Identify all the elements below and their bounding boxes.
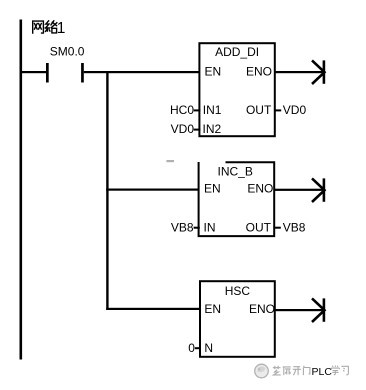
svg-text:N: N — [204, 341, 213, 355]
svg-text:INC_B: INC_B — [218, 165, 253, 179]
svg-text:VD0: VD0 — [283, 103, 307, 117]
function block INC_B — [199, 162, 275, 236]
svg-text:ENO: ENO — [246, 64, 272, 78]
contact SM0.0 — [46, 63, 49, 83]
watermark text 芝麻开门PLC学习 — [273, 366, 310, 375]
svg-text:IN1: IN1 — [203, 103, 222, 117]
network label 网络 1 — [33, 21, 57, 33]
wire HSC ENO to arrow — [275, 309, 323, 311]
svg-text:ENO: ENO — [247, 181, 273, 195]
svg-text:PLC: PLC — [312, 366, 333, 378]
wire INC_B ENO to arrow — [274, 189, 323, 191]
svg-text:SM0.0: SM0.0 — [50, 45, 85, 59]
function block ADD_DI — [199, 43, 274, 136]
svg-text:OUT: OUT — [246, 103, 272, 117]
wire branch to INC_B EN — [106, 189, 199, 191]
svg-text:HC0: HC0 — [170, 103, 194, 117]
function block HSC — [200, 281, 275, 357]
svg-text:IN2: IN2 — [203, 122, 222, 136]
arrow rung 1 — [312, 60, 325, 84]
svg-text:OUT: OUT — [246, 221, 272, 235]
svg-text:VB8: VB8 — [171, 221, 194, 235]
svg-text:VB8: VB8 — [283, 221, 306, 235]
svg-text:ENO: ENO — [249, 302, 275, 316]
wire branch to HSC EN — [106, 308, 200, 310]
wire rail to contact — [21, 71, 46, 73]
operand VB8 (OUT) — [275, 227, 281, 229]
gray artifact dash — [166, 160, 174, 162]
arrow rung 2 — [312, 178, 325, 202]
svg-text:EN: EN — [204, 302, 221, 316]
left power rail — [20, 20, 23, 360]
svg-text:VD0: VD0 — [171, 122, 195, 136]
arrow rung 3 — [312, 298, 325, 322]
svg-text:EN: EN — [204, 181, 221, 195]
svg-text:EN: EN — [205, 64, 222, 78]
wire ADD_DI ENO to arrow — [275, 71, 323, 73]
svg-text:0: 0 — [188, 341, 195, 355]
watermark logo — [255, 364, 269, 378]
wire contact to ADD_DI EN — [84, 71, 200, 73]
svg-text:IN: IN — [204, 221, 216, 235]
svg-text:ADD_DI: ADD_DI — [215, 45, 259, 59]
branch wire vertical — [106, 71, 108, 310]
svg-text:1: 1 — [57, 20, 66, 37]
svg-text:HSC: HSC — [225, 284, 251, 298]
operand VD0 (OUT) — [275, 109, 281, 111]
